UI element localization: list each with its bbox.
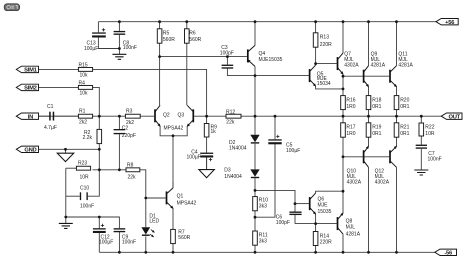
svg-text:100µF: 100µF [286,148,300,154]
svg-text:MJL: MJL [346,225,356,231]
svg-text:0R1: 0R1 [372,131,381,137]
svg-text:C1: C1 [47,104,54,110]
svg-text:R18: R18 [372,98,381,104]
svg-text:100nF: 100nF [122,239,136,245]
svg-text:3k3: 3k3 [259,239,267,245]
svg-text:GND: GND [24,147,36,153]
svg-text:100µF: 100µF [84,46,98,52]
svg-text:1R0: 1R0 [346,131,355,137]
svg-text:R20: R20 [400,98,409,104]
svg-text:SIM1: SIM1 [24,68,38,74]
svg-text:560R: 560R [178,235,190,241]
svg-text:R12: R12 [226,110,235,116]
svg-text:R19: R19 [372,125,381,131]
svg-text:-56: -56 [444,250,453,256]
svg-text:1N4004: 1N4004 [229,146,247,152]
svg-text:C2: C2 [122,125,129,131]
svg-text:0R1: 0R1 [400,104,409,110]
svg-text:R17: R17 [346,125,355,131]
svg-text:MJE15035: MJE15035 [259,57,283,63]
svg-text:Q2: Q2 [163,112,170,118]
svg-text:100nF: 100nF [428,157,442,163]
svg-text:4302A: 4302A [375,179,390,185]
svg-text:15034: 15034 [317,81,331,87]
svg-text:R22: R22 [425,125,434,131]
svg-text:IN: IN [28,114,33,120]
svg-text:Q3: Q3 [178,112,185,118]
svg-text:100pF: 100pF [220,50,234,56]
svg-text:MPSA42: MPSA42 [177,200,197,206]
svg-text:4302A: 4302A [347,179,362,185]
svg-text:4302A: 4302A [344,63,359,69]
svg-text:R4: R4 [79,80,86,86]
svg-text:Q8: Q8 [346,218,353,224]
svg-text:15035: 15035 [318,209,332,215]
svg-text:1R0: 1R0 [346,104,355,110]
svg-text:220R: 220R [320,42,332,48]
svg-text:10k: 10k [80,91,89,97]
svg-text:R13: R13 [320,35,329,41]
svg-text:2k2: 2k2 [79,120,87,126]
svg-text:R21: R21 [400,125,409,131]
svg-text:100µF: 100µF [187,155,201,161]
svg-text:SIM2: SIM2 [24,86,37,92]
svg-text:D3: D3 [224,168,231,174]
svg-text:100nF: 100nF [123,45,137,51]
svg-text:100µF: 100µF [99,239,113,245]
svg-text:100pF: 100pF [276,220,290,226]
svg-text:1k: 1k [211,129,217,135]
svg-text:2k2: 2k2 [126,120,134,126]
svg-text:R5: R5 [163,31,170,37]
svg-text:MJE: MJE [318,203,329,209]
svg-text:10k: 10k [80,73,89,79]
svg-text:R6: R6 [189,31,196,37]
svg-text:LED: LED [149,219,159,225]
svg-text:R1: R1 [79,109,86,115]
svg-text:0R1: 0R1 [400,131,409,137]
svg-text:4.7µF: 4.7µF [44,125,57,131]
svg-text:MPSA42: MPSA42 [164,126,184,132]
svg-text:10R: 10R [80,174,90,180]
svg-text:R23: R23 [78,161,87,167]
svg-text:560R: 560R [189,37,201,43]
svg-text:220R: 220R [320,239,332,245]
svg-text:R3: R3 [126,109,133,115]
svg-text:4281A: 4281A [346,232,361,238]
svg-text:100nF: 100nF [80,204,94,210]
svg-text:22k: 22k [226,120,235,126]
svg-text:560R: 560R [163,37,175,43]
svg-text:Q1: Q1 [177,193,184,199]
svg-text:0R1: 0R1 [372,104,381,110]
svg-text:4281A: 4281A [371,63,386,69]
svg-text:R15: R15 [79,62,88,68]
svg-text:3k3: 3k3 [259,203,267,209]
svg-text:220pF: 220pF [122,133,136,139]
svg-text:2.2k: 2.2k [83,135,93,141]
svg-text:R8: R8 [127,162,134,168]
svg-text:22k: 22k [128,174,137,180]
svg-text:10R: 10R [425,131,435,137]
svg-text:C10: C10 [80,185,89,191]
svg-text:+56: +56 [445,20,455,26]
svg-text:OUT: OUT [448,114,460,120]
svg-text:4281A: 4281A [398,63,413,69]
svg-text:R16: R16 [346,98,355,104]
svg-text:1N4004: 1N4004 [224,174,242,180]
